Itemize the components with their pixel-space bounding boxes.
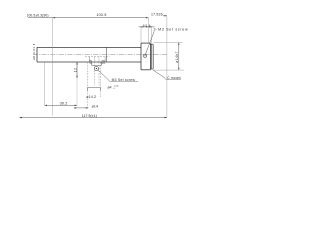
section boundary vertical [105,47,107,62]
top edge [37,46,141,48]
svg-text:6.5: 6.5 [143,24,148,28]
dia 4 +0.05 text [108,85,120,90]
bottom edge [37,61,141,63]
end ring (mount thread section) [150,44,153,69]
overall bottom dimension [20,114,167,118]
dimensions 6.5 and 4 [139,18,155,44]
centerline [33,54,167,56]
vertical 12 dimension [73,62,77,78]
set screw circle [94,67,98,71]
3-M3 set screw label and leader [146,28,189,55]
svg-text:3-M3 Set screw: 3-M3 Set screw [154,28,189,32]
top dimension 100.5 [27,13,149,18]
hatch blocks [90,60,92,63]
svg-text:0: 0 [114,88,116,90]
svg-text:12: 12 [73,68,77,73]
svg-text:ø14.2: ø14.2 [86,95,96,99]
hole wall hidden line left [93,57,95,86]
right side diameter dimension [154,43,185,71]
hidden counterbore line [85,56,110,58]
C mount label [153,70,181,80]
extension line 30.2 left [44,62,46,105]
svg-text:100.5: 100.5 [96,13,106,17]
flange at right [141,43,150,70]
extension line image plane [166,16,168,118]
svg-text:ø14h7: ø14h7 [175,51,179,62]
second small dimension with dia 14 [74,105,98,109]
svg-text:30.2: 30.2 [60,101,68,105]
boss extension dashed left [87,62,89,108]
dimension 17.526 [151,12,167,16]
dia 14.2 dimension [86,88,101,99]
svg-text:ø4: ø4 [108,85,112,89]
M3 set screw middle label [98,70,138,82]
dimension line 12 vertical [76,62,78,78]
shaft body outline [37,47,141,62]
30.2 dimension [45,101,78,106]
svg-text:117.9(±1): 117.9(±1) [82,114,97,118]
svg-text:M3 Set screw: M3 Set screw [112,78,136,82]
extension line datum plane [52,18,54,116]
ledge below shaft [91,62,93,66]
svg-text:ø14: ø14 [92,105,99,109]
left diameter callout [32,45,36,60]
left end face [36,47,38,62]
hole wall hidden line right [98,57,100,86]
svg-text:ø8 -0.01: ø8 -0.01 [32,47,36,60]
svg-text:100.5±0.3(90): 100.5±0.3(90) [27,13,49,17]
flange set screw circle [143,54,146,57]
svg-text:17.526: 17.526 [151,12,163,16]
mid-section broken-out feature [85,47,110,70]
boss extension dashed right [100,62,102,97]
svg-text:C mount: C mount [167,76,180,80]
